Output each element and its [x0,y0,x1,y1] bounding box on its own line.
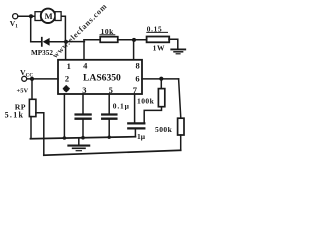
wire motor right down [62,16,66,42]
svg-text:VCC: VCC [20,68,33,78]
wire V1 to junction [18,15,35,17]
ground bottom [68,138,89,151]
wire pin1 [65,42,67,62]
svg-text:M: M [45,11,53,21]
node dot bus-blob [63,136,67,140]
node dot bus-C1 [81,136,85,140]
wire junction A down to diode [31,16,42,42]
resistor 0.15 1W [147,37,170,43]
wire to 100k [160,79,162,89]
op-amp U1 LAS6350 [58,60,142,94]
diode MP352 [42,38,66,46]
wire 10k to 0.15 [118,39,147,41]
capacitor C1 [76,94,91,138]
svg-text:8: 8 [136,60,140,70]
wire top run left [66,41,84,43]
wire 500k bottom [180,135,182,150]
svg-text:1μ: 1μ [137,132,146,141]
wire pin4 [83,40,85,62]
terminal V1 [13,14,18,19]
wire 100k bottom L to C3 [144,107,161,123]
svg-text:100k: 100k [137,96,155,105]
svg-text:500k: 500k [155,125,173,134]
terminal Vcc [22,76,27,81]
wire pin6 right [142,78,179,80]
capacitor C3 1u [128,94,144,137]
svg-text:0.1μ: 0.1μ [113,102,130,111]
svg-text:1W: 1W [153,43,165,52]
node junction D [30,77,34,81]
wire RP bottom [30,117,32,139]
wire Vcc to pin2 [27,78,58,80]
svg-text:5.1k: 5.1k [5,110,25,119]
svg-text:2: 2 [65,73,69,83]
resistor 500k [178,118,184,135]
wire RP wiper [36,113,44,156]
wire ground bus [31,137,136,139]
svg-text:1: 1 [67,61,71,71]
wire top run to 10k [84,39,100,41]
node junction E [159,77,163,81]
capacitor C2 0.1u [102,94,116,137]
wire down to RP [31,79,33,100]
wire bottom rail [44,150,181,155]
svg-text:+5V: +5V [17,88,29,95]
svg-text:V1: V1 [10,19,18,30]
node junction B [64,40,68,44]
wire 0.15 to ground [169,39,178,48]
node dot bus-C2 [108,136,111,139]
wire pin6 down right column [179,79,181,118]
svg-text:4: 4 [83,60,88,70]
svg-text:6: 6 [135,73,139,83]
wire pin8 [133,40,135,62]
wire pin-blob down [63,94,65,138]
node junction A [29,14,33,18]
potentiometer RP [29,99,36,116]
svg-text:MP352: MP352 [31,49,53,57]
blob mark pin under 2 [63,85,70,92]
ground top-right [171,49,185,53]
resistor 100k [158,89,164,107]
svg-text:LAS6350: LAS6350 [83,73,121,84]
resistor 10k [100,37,118,43]
motor M [35,9,61,23]
node junction C [132,38,136,42]
